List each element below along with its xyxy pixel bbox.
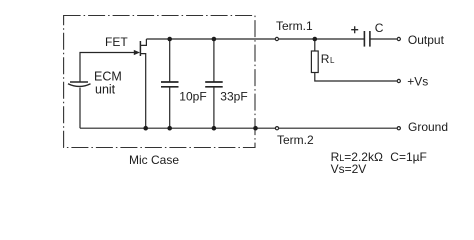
svg-text:C: C (375, 21, 384, 35)
capacitor C left plate (363, 31, 365, 47)
svg-text:FET: FET (105, 35, 128, 49)
svg-text:Output: Output (408, 33, 445, 47)
svg-text:R: R (321, 52, 330, 66)
junction dot bottom rail x 33pF (212, 126, 217, 131)
svg-text:C=1µF: C=1µF (390, 150, 427, 164)
resistor RL top lead (314, 39, 316, 51)
wire: ECM bottom lead (79, 88, 81, 129)
terminal pin Term.1 (275, 37, 278, 40)
capacitor ECM capsule plates (70, 81, 88, 83)
capacitor 33pF plates (205, 81, 223, 83)
svg-text:+Vs: +Vs (407, 74, 428, 88)
svg-text:Term.2: Term.2 (277, 133, 314, 147)
capacitor 10pF top lead (169, 39, 171, 82)
junction dot bottom rail x 10pF (167, 126, 172, 131)
capacitor 10pF plates (161, 81, 179, 83)
transistor FET channel bar (139, 41, 141, 56)
svg-text:10pF: 10pF (179, 89, 206, 103)
capacitor C right plate (369, 31, 371, 47)
svg-text:Vs=2V: Vs=2V (331, 162, 367, 176)
svg-text:33pF: 33pF (220, 89, 247, 103)
terminal pin Term.2 (275, 127, 278, 130)
transistor FET drain stub (140, 39, 146, 45)
mic case dashed border (64, 16, 255, 148)
junction dot top rail x RL (313, 37, 318, 42)
junction dot bottom rail x FET source (143, 126, 148, 131)
junction dot top rail x 10pF (167, 37, 172, 42)
capacitor 10pF bottom lead (169, 87, 171, 128)
wire: C to Output terminal (370, 38, 397, 40)
wire: ECM top lead to gate (node G) (80, 53, 136, 83)
svg-text:Ground: Ground (408, 120, 448, 134)
resistor RL bottom lead and +Vs wire (315, 73, 397, 82)
svg-text:unit: unit (95, 83, 116, 97)
wire: top rail drain to C (node Term.1) (146, 38, 364, 40)
wire: ground rail (node Term.2) (80, 127, 397, 129)
svg-text:L: L (330, 56, 335, 65)
capacitor 33pF top lead (213, 39, 215, 82)
transistor FET gate arrowhead (134, 50, 140, 55)
terminal +Vs (397, 79, 400, 82)
junction dot top rail x 33pF (212, 37, 217, 42)
junction dot case shield to ground (253, 126, 258, 131)
capacitor 33pF bottom lead (213, 87, 215, 128)
svg-text:Mic Case: Mic Case (129, 153, 179, 167)
svg-text:Term.1: Term.1 (276, 19, 313, 33)
terminal Output (397, 37, 400, 40)
plus polarity mark for C (351, 26, 358, 33)
terminal Ground (397, 127, 400, 130)
svg-text:ECM: ECM (94, 70, 122, 84)
resistor RL body (311, 51, 318, 73)
transistor FET source stub (140, 54, 145, 129)
